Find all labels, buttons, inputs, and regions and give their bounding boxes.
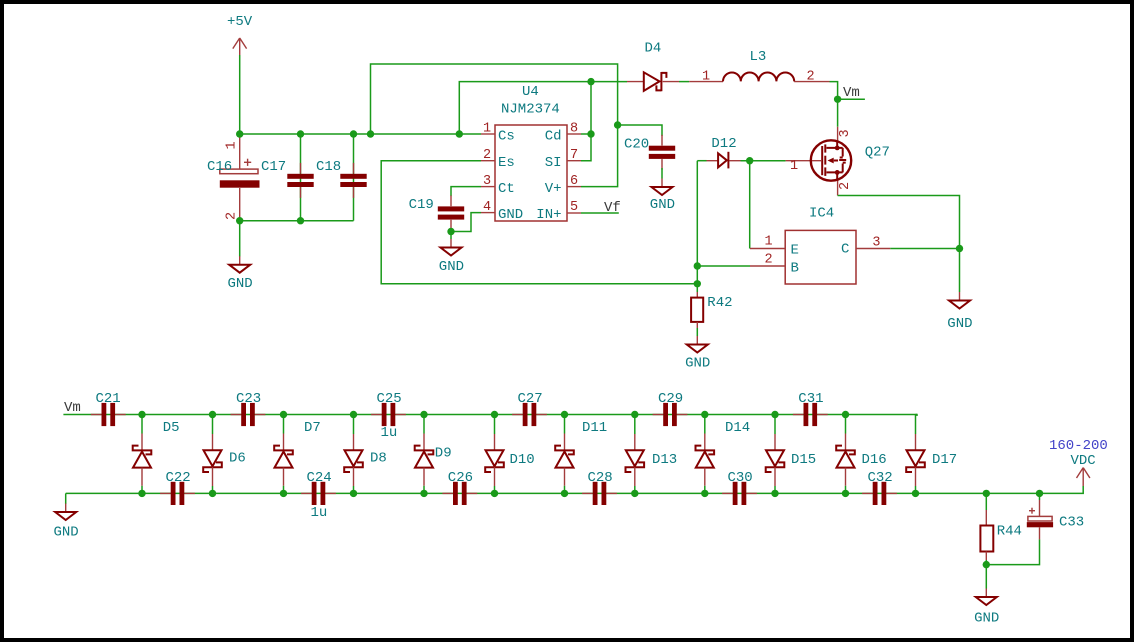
svg-text:3: 3 bbox=[872, 236, 880, 251]
junction ladder bottom 8 bbox=[631, 490, 638, 497]
capacitor C32 bbox=[862, 482, 897, 505]
svg-text:C27: C27 bbox=[518, 391, 543, 407]
junction ladder top 9 bbox=[701, 411, 708, 418]
svg-text:Es: Es bbox=[498, 155, 515, 171]
svg-text:D6: D6 bbox=[229, 451, 246, 467]
junction bottom b bbox=[297, 217, 304, 224]
svg-text:U4: U4 bbox=[522, 84, 539, 100]
wire D12 left drop bbox=[697, 160, 706, 162]
capacitor C26 bbox=[442, 482, 477, 505]
wire R44 bottom to C33 bbox=[986, 539, 1039, 564]
junction ladder bottom 2 bbox=[209, 490, 216, 497]
capacitor C22 bbox=[160, 482, 195, 505]
capacitor C30 bbox=[722, 482, 757, 505]
diode D4 bbox=[627, 41, 679, 92]
svg-text:1: 1 bbox=[483, 122, 491, 137]
wire Es loop bbox=[381, 161, 697, 284]
ground Q27 emitter bbox=[949, 292, 970, 309]
diode D14 bbox=[696, 415, 715, 493]
junction ladder bottom 5 bbox=[420, 490, 427, 497]
svg-text:C29: C29 bbox=[658, 391, 683, 407]
svg-text:GND: GND bbox=[650, 197, 675, 213]
svg-text:IC4: IC4 bbox=[809, 206, 834, 222]
svg-text:NJM2374: NJM2374 bbox=[501, 102, 560, 118]
junction D12 out bbox=[746, 157, 753, 164]
capacitor C25 bbox=[371, 403, 406, 426]
diode D5 bbox=[133, 415, 152, 493]
diode D9 bbox=[415, 415, 434, 493]
wire main rail y134 bbox=[240, 133, 481, 135]
wire C19 to gnd bbox=[450, 228, 452, 239]
diode D13 bbox=[626, 415, 645, 493]
power +5V bbox=[227, 14, 253, 55]
junction Vm bbox=[834, 96, 841, 103]
capacitor C18 bbox=[340, 163, 366, 198]
diode D8 bbox=[344, 415, 363, 493]
junction rail d bbox=[367, 130, 374, 137]
junction ladder top 7 bbox=[561, 411, 568, 418]
svg-text:L3: L3 bbox=[750, 49, 767, 65]
svg-text:Vf: Vf bbox=[604, 200, 621, 216]
capacitor C20 bbox=[649, 135, 675, 170]
svg-text:8: 8 bbox=[570, 122, 578, 137]
junction D4 line bbox=[587, 78, 594, 85]
junction ladder top 1 bbox=[138, 411, 145, 418]
svg-text:C18: C18 bbox=[316, 159, 341, 175]
capacitor C16 bbox=[207, 136, 260, 220]
svg-text:C28: C28 bbox=[588, 470, 613, 486]
diode D15 bbox=[766, 415, 785, 493]
svg-text:D10: D10 bbox=[510, 452, 535, 468]
diode D16 bbox=[836, 415, 855, 493]
junction R44 top bbox=[983, 490, 990, 497]
svg-text:GND: GND bbox=[947, 316, 972, 332]
junction ladder bottom 10 bbox=[771, 490, 778, 497]
svg-text:GND: GND bbox=[974, 611, 999, 627]
svg-text:GND: GND bbox=[498, 207, 523, 223]
junction C19 bbox=[447, 228, 454, 235]
svg-text:D9: D9 bbox=[435, 446, 452, 462]
ground R42 bbox=[687, 336, 708, 353]
svg-text:C: C bbox=[841, 242, 849, 258]
junction R44 bottom bbox=[983, 561, 990, 568]
capacitor C24 bbox=[301, 482, 336, 505]
svg-text:V+: V+ bbox=[545, 181, 562, 197]
svg-text:IN+: IN+ bbox=[536, 207, 561, 223]
svg-text:C17: C17 bbox=[261, 159, 286, 175]
svg-text:C30: C30 bbox=[728, 470, 753, 486]
junction ladder top 10 bbox=[771, 411, 778, 418]
svg-text:E: E bbox=[791, 243, 799, 259]
capacitor C23 bbox=[231, 403, 266, 426]
wire C18 branch bbox=[353, 134, 355, 221]
svg-text:D5: D5 bbox=[163, 420, 180, 436]
capacitor C27 bbox=[512, 403, 547, 426]
svg-text:Vm: Vm bbox=[843, 85, 860, 101]
svg-text:160-200: 160-200 bbox=[1049, 438, 1108, 454]
svg-text:R44: R44 bbox=[997, 524, 1022, 540]
junction ladder bottom 11 bbox=[842, 490, 849, 497]
capacitor C19 bbox=[438, 196, 464, 231]
junction ladder top 6 bbox=[491, 411, 498, 418]
wire junction to gnd bbox=[959, 249, 961, 293]
svg-text:C31: C31 bbox=[798, 391, 823, 407]
svg-text:D11: D11 bbox=[582, 420, 607, 436]
svg-text:D7: D7 bbox=[304, 420, 321, 436]
svg-text:D17: D17 bbox=[932, 452, 957, 468]
ground C20 bbox=[652, 179, 673, 196]
svg-text:C33: C33 bbox=[1059, 515, 1084, 531]
wire top rail bbox=[63, 415, 917, 417]
junction C33 top bbox=[1036, 490, 1043, 497]
wire bottom rail bbox=[66, 486, 1083, 493]
junction ladder bottom 4 bbox=[350, 490, 357, 497]
junction ladder bottom 7 bbox=[561, 490, 568, 497]
ground ladder left bbox=[55, 504, 76, 521]
junction pin8 bbox=[587, 130, 594, 137]
svg-text:R42: R42 bbox=[707, 295, 732, 311]
svg-text:D12: D12 bbox=[711, 136, 736, 152]
wire D17 top drop bbox=[916, 414, 918, 416]
op-amp U4 bbox=[481, 84, 581, 223]
wire C20 branch bbox=[618, 125, 662, 136]
svg-text:4: 4 bbox=[483, 200, 491, 215]
svg-text:C32: C32 bbox=[868, 470, 893, 486]
ground C19 bbox=[441, 239, 462, 256]
capacitor C28 bbox=[582, 482, 617, 505]
transistor IC4 bbox=[750, 206, 890, 285]
transistor Q27 bbox=[786, 127, 890, 196]
wire to R42 vertical bbox=[696, 161, 698, 292]
svg-text:1: 1 bbox=[765, 235, 773, 250]
svg-text:SI: SI bbox=[545, 155, 562, 171]
junction ladder bottom 1 bbox=[138, 490, 145, 497]
svg-text:C23: C23 bbox=[236, 391, 261, 407]
junction bottom a bbox=[236, 217, 243, 224]
svg-text:Q27: Q27 bbox=[865, 145, 890, 161]
capacitor C17 bbox=[287, 163, 313, 198]
svg-text:C19: C19 bbox=[409, 197, 434, 213]
resistor R42 bbox=[691, 292, 732, 328]
svg-text:3: 3 bbox=[838, 129, 853, 137]
svg-text:C20: C20 bbox=[624, 137, 649, 153]
wire R44 to gnd bbox=[985, 565, 987, 589]
wire Cd SI vertical bbox=[581, 82, 591, 161]
svg-text:D4: D4 bbox=[645, 41, 662, 57]
wire pin5 Vf bbox=[581, 212, 619, 214]
wire +5V to rail bbox=[239, 55, 241, 134]
svg-text:5: 5 bbox=[570, 200, 578, 215]
svg-text:1u: 1u bbox=[381, 425, 398, 441]
svg-text:2: 2 bbox=[807, 70, 815, 85]
junction ladder bottom 3 bbox=[280, 490, 287, 497]
diode D11 bbox=[555, 415, 574, 493]
svg-text:C21: C21 bbox=[96, 391, 121, 407]
svg-text:Vm: Vm bbox=[64, 400, 81, 416]
svg-text:2: 2 bbox=[483, 148, 491, 163]
svg-text:2: 2 bbox=[765, 252, 773, 267]
junction rail c bbox=[350, 130, 357, 137]
svg-text:VDC: VDC bbox=[1071, 453, 1096, 469]
svg-text:D8: D8 bbox=[370, 451, 387, 467]
junction IC4 C bbox=[956, 245, 963, 252]
junction ladder top 4 bbox=[350, 411, 357, 418]
wire rail bottom y220.7 bbox=[240, 220, 354, 222]
wire line A up-over to V+ bbox=[371, 64, 618, 187]
junction ladder top 11 bbox=[842, 411, 849, 418]
power 160-200 VDC bbox=[1049, 438, 1108, 486]
svg-text:D16: D16 bbox=[862, 452, 887, 468]
junction rail a bbox=[236, 130, 243, 137]
junction ladder bottom 6 bbox=[491, 490, 498, 497]
svg-text:+5V: +5V bbox=[227, 14, 253, 30]
svg-text:GND: GND bbox=[54, 525, 79, 541]
junction ladder top 3 bbox=[280, 411, 287, 418]
junction ladder top 5 bbox=[420, 411, 427, 418]
inductor L3 bbox=[689, 49, 829, 85]
wire C20 to gnd bbox=[661, 168, 663, 179]
svg-text:B: B bbox=[791, 260, 799, 276]
ground C16 bbox=[239, 221, 241, 257]
ground R44 bbox=[976, 589, 997, 606]
diode D12 bbox=[707, 136, 741, 168]
svg-text:6: 6 bbox=[570, 174, 578, 189]
svg-text:1: 1 bbox=[225, 141, 240, 149]
wire C17 branch bbox=[300, 134, 302, 221]
svg-text:C22: C22 bbox=[166, 470, 191, 486]
svg-text:D13: D13 bbox=[652, 452, 677, 468]
junction ladder bottom 12 bbox=[912, 490, 919, 497]
svg-text:7: 7 bbox=[570, 148, 578, 163]
svg-text:D15: D15 bbox=[791, 452, 816, 468]
wire C pin to junction bbox=[890, 248, 959, 250]
svg-text:GND: GND bbox=[228, 276, 253, 292]
capacitor C33 bbox=[1027, 493, 1084, 539]
svg-text:1u: 1u bbox=[311, 505, 328, 521]
junction ladder top 8 bbox=[631, 411, 638, 418]
junction rail e bbox=[456, 130, 463, 137]
junction R42 top Es bbox=[694, 280, 701, 287]
capacitor C29 bbox=[653, 403, 688, 426]
capacitor C21 bbox=[91, 403, 126, 426]
svg-text:Cd: Cd bbox=[545, 128, 562, 144]
wire R42 to gnd bbox=[696, 328, 698, 336]
wire pin4 to C19 bottom bbox=[451, 213, 481, 232]
wire D4 to L3 bbox=[679, 81, 689, 83]
junction ladder top 2 bbox=[209, 411, 216, 418]
svg-text:C25: C25 bbox=[377, 391, 402, 407]
resistor R44 bbox=[980, 493, 1022, 564]
junction R42 top B bbox=[694, 262, 701, 269]
svg-text:C24: C24 bbox=[307, 470, 332, 486]
junction C20 tap bbox=[614, 121, 621, 128]
junction rail b bbox=[297, 130, 304, 137]
wire E drop bbox=[749, 161, 751, 249]
svg-text:C16: C16 bbox=[207, 159, 232, 175]
capacitor C31 bbox=[793, 403, 828, 426]
svg-text:3: 3 bbox=[483, 174, 491, 189]
svg-text:Cs: Cs bbox=[498, 128, 515, 144]
svg-text:1: 1 bbox=[790, 159, 798, 174]
svg-text:2: 2 bbox=[838, 182, 853, 190]
wire pin8 stub wire bbox=[581, 133, 591, 135]
wire line B to D4 bbox=[459, 82, 627, 134]
wire Q27 source to C junction bbox=[838, 196, 960, 249]
diode D7 bbox=[274, 415, 293, 493]
junction ladder bottom 9 bbox=[701, 490, 708, 497]
wire L3 to Vm node bbox=[830, 82, 838, 127]
wire Ct to C19 bbox=[451, 187, 481, 197]
diode D10 bbox=[485, 415, 504, 493]
diode D17 bbox=[906, 415, 925, 493]
svg-text:Ct: Ct bbox=[498, 181, 515, 197]
svg-text:1: 1 bbox=[702, 70, 710, 85]
svg-text:D14: D14 bbox=[725, 420, 750, 436]
node Vm bbox=[838, 98, 865, 100]
wire B branch bbox=[697, 265, 750, 267]
svg-text:GND: GND bbox=[685, 355, 710, 371]
svg-text:GND: GND bbox=[439, 259, 464, 275]
diode D6 bbox=[203, 415, 222, 493]
wire D12 to Q27 gate bbox=[741, 160, 786, 162]
wire bottom rail to gnd bbox=[65, 493, 67, 504]
svg-text:C26: C26 bbox=[448, 470, 473, 486]
